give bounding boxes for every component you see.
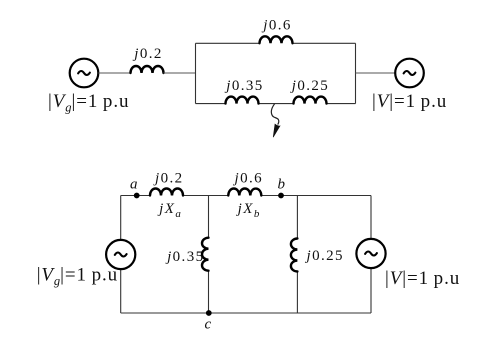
shunt branch 1 wires (node a-b midpoint to c): [208, 196, 210, 238]
inductor j0.25 (top circuit, box bottom edge): [294, 97, 327, 104]
svg-text:j0.2: j0.2: [153, 170, 184, 186]
bottom circuit: right vertical wire: [370, 196, 372, 314]
inductor j0.35 (bottom circuit, vertical): [202, 238, 209, 271]
AC source V (top right): [395, 59, 424, 88]
wire box to right source: [356, 72, 396, 74]
svg-text:j0.35: j0.35: [224, 78, 263, 94]
inductor j0.6 / jXb (bottom circuit): [228, 189, 261, 196]
svg-text:c: c: [204, 317, 212, 333]
svg-text:b: b: [278, 177, 287, 193]
squiggle transformation arrow: [271, 104, 280, 137]
svg-text:jXa: jXa: [157, 201, 181, 220]
node c (dot): [206, 310, 212, 316]
box top edge wires: [196, 42, 261, 44]
bottom circuit: top wire segments: [121, 195, 150, 197]
svg-text:|V|=1 p.u: |V|=1 p.u: [385, 268, 460, 289]
wire source to inductor j0.2: [98, 72, 130, 74]
svg-text:|V|=1 p.u: |V|=1 p.u: [372, 91, 447, 112]
svg-text:j0.2: j0.2: [132, 46, 163, 62]
svg-text:j0.25: j0.25: [290, 78, 329, 94]
shunt branch 2 wires: [296, 196, 298, 239]
inductor j0.6 (top circuit, box top edge): [260, 36, 293, 43]
AC source Vg (bottom left): [106, 240, 135, 269]
node b (dot): [278, 193, 284, 199]
bottom circuit: bottom wire: [121, 312, 371, 314]
AC source Vg (top left): [70, 59, 99, 88]
svg-text:a: a: [130, 177, 139, 193]
inductor j0.25 (bottom circuit, vertical): [291, 239, 298, 272]
AC source V (bottom right): [356, 239, 385, 268]
node a (dot): [134, 193, 140, 199]
wire inductor to box: [164, 72, 196, 74]
svg-text:|Vg|=1 p.u: |Vg|=1 p.u: [48, 91, 129, 115]
svg-text:j0.35: j0.35: [165, 249, 204, 265]
bottom circuit: left vertical wire: [120, 196, 122, 314]
inductor j0.2 / jXa (bottom circuit): [150, 189, 183, 196]
svg-text:j0.6: j0.6: [261, 18, 292, 34]
svg-text:j0.25: j0.25: [305, 248, 344, 264]
box right edge (wire): [355, 43, 357, 103]
box bottom edge wires: [196, 103, 226, 105]
svg-text:jXb: jXb: [236, 201, 260, 220]
box left edge (wire): [195, 43, 197, 103]
svg-text:|Vg|=1 p.u: |Vg|=1 p.u: [37, 265, 118, 289]
inductor j0.35 (top circuit, box bottom edge): [226, 97, 259, 104]
svg-text:j0.6: j0.6: [233, 170, 264, 186]
inductor j0.2 (top circuit): [131, 66, 164, 73]
